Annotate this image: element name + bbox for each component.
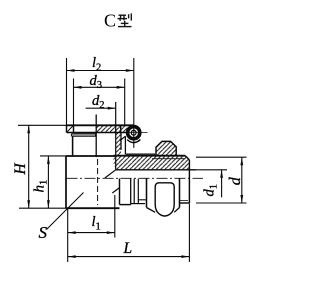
step diagonal at wall <box>120 136 126 141</box>
flange bottom edge <box>67 132 129 134</box>
L right extension <box>188 204 190 263</box>
dim d3 extension left <box>73 79 75 126</box>
d1 dim line (single up arrow) <box>220 170 223 198</box>
port bore right wall <box>115 102 117 170</box>
washer top line <box>71 133 95 135</box>
step block bottom edge <box>125 153 155 155</box>
body top edge <box>66 155 116 157</box>
body right face below center <box>119 179 121 205</box>
collar bottom edge <box>120 204 131 206</box>
neck right edge <box>95 115 97 158</box>
neck left edge <box>72 136 74 156</box>
S leader line <box>47 193 84 230</box>
svg-text:l1: l1 <box>92 214 101 232</box>
washer face edge 1 <box>133 179 135 203</box>
washer face edge 2 <box>137 179 139 203</box>
hex nut corner chamfers <box>147 208 180 213</box>
washer bottom line <box>71 135 95 137</box>
flange right lip inner edge <box>120 125 122 132</box>
connector top chamfer <box>185 156 189 160</box>
l1/L left extension <box>67 208 69 262</box>
washer bottom edge <box>131 203 145 205</box>
hex face rounded facet <box>155 183 174 216</box>
dim d3 extension right <box>124 79 126 126</box>
washer left end <box>70 134 72 136</box>
body bottom edge <box>66 207 120 209</box>
svg-text:d1: d1 <box>202 184 220 197</box>
body left edge <box>65 156 67 208</box>
flange top edge <box>67 124 135 126</box>
d1 top extension <box>196 169 227 171</box>
washer right end <box>95 134 97 136</box>
dim l2 extension right / ball centerline <box>133 58 135 148</box>
bore top line <box>116 169 196 171</box>
svg-text:L: L <box>123 240 133 257</box>
dim line L <box>68 255 190 258</box>
flange right section hatch <box>96 126 127 132</box>
dim line l2 <box>67 69 134 72</box>
l1 right extension <box>114 195 116 238</box>
connector top edge <box>114 155 186 157</box>
dim line d2 (single right arrow) <box>86 107 116 110</box>
connector end face <box>188 160 190 203</box>
d top extension <box>196 156 247 158</box>
port outer wall right <box>120 133 122 151</box>
hidden bore dashed line <box>97 159 99 205</box>
thread root line top <box>152 158 185 160</box>
hex top silhouette <box>156 141 176 155</box>
svg-text:S: S <box>39 223 48 242</box>
step block right edge <box>124 136 126 154</box>
body bottom chamfer diagonal <box>112 188 119 193</box>
hex nut left edge <box>146 179 148 208</box>
title glyph 型 (drawn strokes) <box>118 13 132 26</box>
H top extension line <box>18 124 67 126</box>
hex nut right edge <box>179 179 181 208</box>
svg-text:H: H <box>12 163 29 176</box>
flange left lip inner edge <box>73 125 75 132</box>
section hatch band <box>114 156 190 170</box>
ball seat cup <box>127 140 140 143</box>
thread root line bottom <box>180 200 189 202</box>
collar right edge <box>130 179 132 205</box>
relief line under hex <box>138 199 146 201</box>
dim l2 extension left <box>66 58 68 125</box>
port wall hatch strip <box>116 133 121 156</box>
centerline (dash-dot) <box>67 177 204 179</box>
svg-text:h1: h1 <box>32 180 50 193</box>
H bottom extension line <box>19 207 66 209</box>
svg-text:d2: d2 <box>92 93 105 111</box>
dim line d3 <box>74 86 125 89</box>
dim line H <box>27 125 30 208</box>
thread bottom line <box>180 202 190 204</box>
dim line d <box>240 157 243 203</box>
hex top hatch <box>156 141 176 155</box>
dim line l1 <box>68 231 115 234</box>
internal cone diagonal <box>105 170 116 178</box>
ball outer ring <box>128 127 140 139</box>
flange left lip hatch <box>67 126 74 133</box>
svg-text:C: C <box>104 11 116 31</box>
ball horizontal centerline <box>119 132 148 134</box>
svg-text:d: d <box>227 176 244 185</box>
d bottom extension <box>196 202 247 204</box>
svg-text:l2: l2 <box>92 55 101 73</box>
svg-text:d3: d3 <box>90 73 103 91</box>
flange left end <box>66 125 68 132</box>
dim line h1 <box>47 156 50 208</box>
h1 top extension line <box>40 155 66 157</box>
ball inner circle <box>131 130 136 135</box>
